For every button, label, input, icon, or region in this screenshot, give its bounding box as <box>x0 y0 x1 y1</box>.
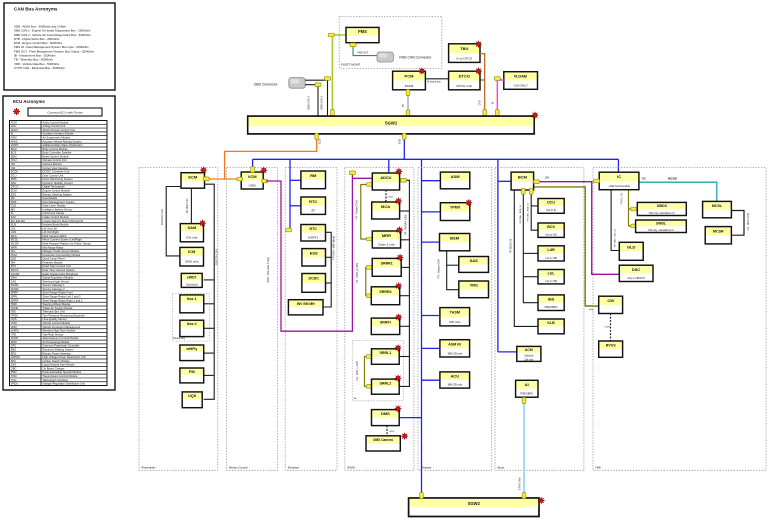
svg-text:18M CB only: 18M CB only <box>447 351 463 355</box>
svg-text:Intake Control Module: Intake Control Module <box>43 215 70 219</box>
svg-text:Body Control Module: Body Control Module <box>43 147 69 151</box>
module FM <box>180 368 204 383</box>
svg-text:Mid Range Radar: Mid Range Radar <box>43 245 64 249</box>
svg-text:ISM: ISM <box>11 359 17 363</box>
module SRRR2 <box>371 287 399 305</box>
svg-text:OBD Connector: OBD Connector <box>254 83 279 87</box>
wire LVDS DMS to DMS Camera <box>386 426 388 436</box>
svg-text:Tachograph Interface: Tachograph Interface <box>43 378 69 382</box>
svg-text:CT/TP CAN - Ethylinide Bus - 5: CT/TP CAN - Ethylinide Bus - 500Kbit/s <box>14 66 65 70</box>
svg-text:RM: RM <box>310 173 317 178</box>
svg-text:FR - Sensor CAN: FR - Sensor CAN <box>438 259 441 279</box>
group box Driveline <box>285 168 337 471</box>
svg-text:FMS: FMS <box>358 29 367 34</box>
svg-text:Airbag Control Unit: Airbag Control Unit <box>43 124 66 128</box>
svg-text:Nox 1: Nox 1 <box>187 297 197 301</box>
svg-text:UQS: UQS <box>11 317 17 321</box>
svg-text:LUL: LUL <box>548 272 556 276</box>
svg-text:AI: AI <box>525 382 529 387</box>
module BSM <box>440 234 470 251</box>
module PCM <box>393 71 426 90</box>
svg-text:Driver Monitoring System: Driver Monitoring System <box>43 177 74 181</box>
module MCSL <box>703 201 732 217</box>
svg-text:SWDL: SWDL <box>656 222 666 226</box>
module YRS <box>459 281 489 298</box>
group box Diesel only <box>172 293 209 341</box>
svg-text:CW: CW <box>607 298 614 303</box>
svg-text:Fuel Module: Fuel Module <box>43 196 58 200</box>
wire FMS OUT (green) from FMS to FMS CAN connector <box>353 43 377 56</box>
svg-text:Ignition Switch Module: Ignition Switch Module <box>43 359 70 363</box>
bus SGW1 <box>248 116 535 134</box>
svg-text:KLB: KLB <box>547 321 555 325</box>
svg-text:ADCU: ADCU <box>11 128 19 132</box>
svg-text:AVAS: AVAS <box>11 139 18 143</box>
svg-text:TPMX: TPMX <box>450 206 461 210</box>
svg-text:Driveline: Driveline <box>288 465 300 469</box>
svg-text:SRRR: SRRR <box>11 298 19 302</box>
module KLB <box>538 319 564 334</box>
svg-text:PSM: PSM <box>11 370 18 374</box>
svg-text:HSRT1: HSRT1 <box>308 236 318 240</box>
svg-text:Acoustic Vehicle Alerting Syst: Acoustic Vehicle Alerting System <box>43 139 83 143</box>
svg-text:18M CB only: 18M CB only <box>447 383 463 387</box>
wire VDB drop to driveline <box>287 159 290 230</box>
svg-text:Secure Gateway 1: Secure Gateway 1 <box>43 283 66 287</box>
wire purple CAN BCM to IC and DSC <box>539 181 592 183</box>
svg-text:SGW2: SGW2 <box>468 501 481 506</box>
svg-text:ACU: ACU <box>11 124 17 128</box>
svg-text:SRRR1: SRRR1 <box>381 261 393 265</box>
svg-text:GMS only: GMS only <box>185 260 199 264</box>
wire FR CAN BCB_V1 BCM to LUR LUL IBS <box>523 192 538 303</box>
module ECM <box>181 173 205 189</box>
module SAS <box>459 257 489 273</box>
svg-text:FR CAN - BCB_C2: FR CAN - BCB_C2 <box>527 202 530 221</box>
svg-text:SAM: SAM <box>11 276 18 280</box>
svg-text:IBS: IBS <box>548 297 555 301</box>
wire FR MCS CAN MCSL to MCSR <box>731 211 744 236</box>
svg-text:VCM: VCM <box>11 321 18 325</box>
wire IB (pink) R.DAB to SGW1 <box>497 80 504 116</box>
svg-text:BCS: BCS <box>547 225 555 229</box>
svg-text:FR ENG CAN: FR ENG CAN <box>160 209 164 225</box>
svg-text:SAS: SAS <box>470 258 479 263</box>
svg-text:ASM Rr: ASM Rr <box>448 343 462 347</box>
svg-text:not on SB: not on SB <box>545 279 557 283</box>
svg-text:Multi Purpose Platform for Pub: Multi Purpose Platform for Public Transp <box>43 242 92 246</box>
svg-text:Steering Angle Sensor: Steering Angle Sensor <box>43 279 70 283</box>
svg-text:Inverter Electric Motor Mild H: Inverter Electric Motor Mild Hybrid <box>43 219 84 223</box>
svg-text:SRRL: SRRL <box>11 295 19 299</box>
svg-text:ACM: ACM <box>525 348 533 352</box>
svg-text:ECU Acronyms: ECU Acronyms <box>13 99 45 104</box>
svg-text:DTB: DTB <box>479 100 482 105</box>
svg-text:9th: 9th <box>354 397 358 400</box>
svg-text:EPS: EPS <box>11 351 17 355</box>
svg-text:Mirror Camera System Left/Righ: Mirror Camera System Left/Right <box>43 238 83 242</box>
svg-text:ICM: ICM <box>11 215 17 219</box>
svg-text:Additional Rain Wiper Distribu: Additional Rain Wiper Distribution <box>43 143 84 147</box>
svg-text:Retarder Module: Retarder Module <box>43 260 64 264</box>
wire FR MGT LIN ECM to SAM <box>190 188 192 223</box>
wire VDB drop to IC <box>617 159 619 172</box>
svg-text:SWD: SWD <box>11 302 17 306</box>
wire FR CAN MM Hybrid driveline chain <box>323 232 331 307</box>
svg-text:FR - RADAR CAN: FR - RADAR CAN <box>405 215 408 235</box>
svg-text:IC: IC <box>617 174 621 179</box>
svg-text:eWDT: eWDT <box>187 275 198 279</box>
svg-text:ADAS: ADAS <box>347 465 355 469</box>
svg-text:ZF: ZF <box>311 209 315 213</box>
module RTC ZF <box>301 197 326 214</box>
svg-text:SGW2: SGW2 <box>11 287 19 291</box>
wire FR ENG CAN ECM to ICM <box>166 187 181 256</box>
svg-text:CW only, standalone IC: CW only, standalone IC <box>649 212 675 215</box>
svg-text:FLEET MGMT: FLEET MGMT <box>341 63 360 67</box>
svg-text:Dynamic Stability Control: Dynamic Stability Control <box>43 181 73 185</box>
svg-text:FM: FM <box>189 369 195 374</box>
module SRRL2 <box>372 379 400 394</box>
svg-text:SRRFr: SRRFr <box>380 321 392 325</box>
svg-text:FR MGT LIN: FR MGT LIN <box>185 199 189 214</box>
svg-text:OBC: OBC <box>11 366 17 370</box>
svg-text:MCSL: MCSL <box>11 238 19 242</box>
wire FR CAN ICB_V1 IC to GLD <box>611 190 619 251</box>
wire ETHY CAN AI to SGW2 <box>523 397 525 498</box>
svg-text:MCA: MCA <box>11 234 17 238</box>
svg-text:Keyless Body Module: Keyless Body Module <box>43 223 69 227</box>
module DCU <box>538 199 564 214</box>
svg-text:DMS: DMS <box>381 411 390 416</box>
svg-text:Body Controller Satellite: Body Controller Satellite <box>43 151 72 155</box>
svg-text:Air Processing Module: Air Processing Module <box>43 340 70 344</box>
svg-text:YRS: YRS <box>470 283 479 288</box>
module DCDC <box>302 274 326 293</box>
svg-text:Multi Camera ADAS: Multi Camera ADAS <box>43 234 67 238</box>
wire FR Fusion CAN ADCU to MRR <box>361 185 373 240</box>
svg-text:LUR: LUR <box>11 230 16 234</box>
module ASM <box>440 172 469 189</box>
svg-text:VDM: VDM <box>11 325 18 329</box>
wire VDB drop body <box>497 159 499 352</box>
module SWDX <box>637 202 686 215</box>
wire FR BGM LIN BCM to KLB <box>514 190 538 326</box>
module DMS <box>372 410 400 426</box>
module CW <box>599 296 623 313</box>
module TASM <box>440 308 470 326</box>
svg-text:FMS: FMS <box>11 200 17 204</box>
svg-text:Road Train Control Unit: Road Train Control Unit <box>43 264 71 268</box>
svg-text:wHiFly: wHiFly <box>185 347 197 351</box>
svg-text:UQS: UQS <box>188 394 196 398</box>
svg-text:INV EM MH: INV EM MH <box>297 302 315 306</box>
wire FR Sensor CAN BSM to SAS YRS <box>447 251 459 290</box>
svg-text:FR CAN - BCB_V1: FR CAN - BCB_V1 <box>519 204 522 223</box>
svg-text:DTCO: DTCO <box>11 185 19 189</box>
module DSC <box>619 265 653 281</box>
svg-text:KLB: KLB <box>11 223 16 227</box>
svg-text:2M: 2M <box>545 176 550 180</box>
svg-text:HVPDU: HVPDU <box>11 355 20 359</box>
svg-text:CAN Bus Acronyms: CAN Bus Acronyms <box>14 7 58 12</box>
svg-text:Lift Unit Right: Lift Unit Right <box>43 230 59 234</box>
svg-text:Quick Lamp Driver: Quick Lamp Driver <box>43 257 65 261</box>
wire OBD CAN 1 to SGW1 <box>305 85 318 116</box>
svg-text:RTC: RTC <box>310 227 318 231</box>
connector FMS CAN Connector <box>377 52 393 62</box>
svg-text:ESS: ESS <box>11 192 17 196</box>
wire VDB drop chassis to SGW2 <box>421 159 423 498</box>
svg-text:R.DAB: R.DAB <box>11 272 19 276</box>
module Nox 2 <box>180 320 204 336</box>
group box Powertrain <box>139 168 218 471</box>
svg-text:DCDC: DCDC <box>11 170 19 174</box>
module SRRL1 <box>372 349 400 365</box>
module SWDL <box>636 220 687 233</box>
svg-text:Electric Power Steering: Electric Power Steering <box>43 351 71 355</box>
group box SRR_L <box>353 341 404 401</box>
svg-text:ASM: ASM <box>11 135 18 139</box>
wire purple CAN VCM to ADCU <box>266 173 352 331</box>
svg-text:LUL: LUL <box>11 226 16 230</box>
svg-text:Optional: Optional <box>186 282 198 286</box>
svg-text:FMS CAN Connector: FMS CAN Connector <box>399 55 432 59</box>
svg-text:RTC: RTC <box>309 199 317 204</box>
module LUL <box>538 270 564 284</box>
wire tractor bus PCM to DTCO <box>425 78 448 80</box>
svg-text:LNG: LNG <box>11 363 17 367</box>
svg-text:CW: CW <box>11 166 16 170</box>
svg-text:BCS: BCS <box>11 151 17 155</box>
group box Motion Control <box>227 168 278 471</box>
group box ADAS <box>345 168 414 471</box>
svg-text:Electronic Braking System: Electronic Braking System <box>43 348 75 352</box>
module MCSR <box>705 227 731 244</box>
module BCS <box>538 223 564 237</box>
svg-text:eWDT: eWDT <box>11 143 19 147</box>
svg-text:CW ONLY: CW ONLY <box>513 84 527 88</box>
svg-text:ADB - CW class 5 only: ADB - CW class 5 only <box>267 257 270 283</box>
svg-text:Steering Wheel Display: Steering Wheel Display <box>43 302 72 306</box>
svg-text:PCM: PCM <box>405 73 415 78</box>
svg-text:BSM: BSM <box>11 154 18 158</box>
wire VDB drop to VCM top <box>252 159 254 171</box>
svg-text:VCM: VCM <box>248 174 258 179</box>
svg-text:(Up to 4): (Up to 4) <box>546 208 556 212</box>
svg-text:ECB: ECB <box>318 139 321 144</box>
legend box CAN Bus Acronyms <box>4 3 115 90</box>
svg-text:VRDU: VRDU <box>11 382 19 386</box>
svg-text:TASM: TASM <box>450 311 460 315</box>
svg-text:CPC: CPC <box>11 344 17 348</box>
svg-text:INV EM MH: INV EM MH <box>11 219 25 223</box>
wire body stub to ACM <box>498 351 517 353</box>
svg-text:If no DTCO: If no DTCO <box>456 56 472 60</box>
module SRRFr <box>371 318 399 334</box>
svg-text:VDM: VDM <box>249 183 256 187</box>
svg-text:Climate Control Unit: Climate Control Unit <box>43 158 67 162</box>
svg-text:DSC: DSC <box>11 181 17 185</box>
svg-text:Common Powertrain Controller: Common Powertrain Controller <box>43 344 80 348</box>
module R.DAB <box>504 72 538 90</box>
module GLD <box>619 242 643 260</box>
svg-text:Instrument Cluster: Instrument Cluster <box>43 211 65 215</box>
module RVCS <box>599 341 623 357</box>
module MCA <box>372 202 400 219</box>
module MRR <box>372 231 400 248</box>
svg-text:ECM: ECM <box>11 189 18 193</box>
svg-text:Powertrain Connectivity Module: Powertrain Connectivity Module <box>43 253 81 257</box>
group box FLEET MGMT <box>339 17 442 69</box>
svg-text:SRRR2: SRRR2 <box>379 290 391 294</box>
module INV EM MH <box>288 300 323 315</box>
svg-text:ACU: ACU <box>450 373 459 378</box>
svg-text:SAS: SAS <box>11 279 17 283</box>
wire LVDS ADCU to MCA <box>385 190 387 202</box>
group box Body <box>495 168 584 471</box>
svg-text:M tractor bus: M tractor bus <box>427 81 441 84</box>
svg-text:DMS Camera: DMS Camera <box>373 438 393 442</box>
wire ECB (orange) SGW1 to ECM and VCM <box>209 134 317 179</box>
svg-text:TPMX: TPMX <box>11 313 19 317</box>
svg-text:Chassis: Chassis <box>421 465 432 469</box>
svg-text:FR IC LIN: FR IC LIN <box>620 193 623 204</box>
module DMS Camera <box>366 436 400 451</box>
svg-text:GLD: GLD <box>627 244 636 249</box>
svg-text:Urea Quality Sensor: Urea Quality Sensor <box>43 317 67 321</box>
module ACM <box>517 346 541 361</box>
svg-text:BCM: BCM <box>11 147 18 151</box>
svg-text:Signal Acquisition Module: Signal Acquisition Module <box>43 276 74 280</box>
svg-text:MRR: MRR <box>382 233 391 238</box>
svg-text:Trailer Air Supply Module: Trailer Air Supply Module <box>43 306 73 310</box>
svg-text:Secure Gateway 2: Secure Gateway 2 <box>43 287 66 291</box>
group box Chassis <box>418 168 492 471</box>
svg-text:DTCO: DTCO <box>459 73 470 78</box>
svg-text:Intelligent Battery Sensor: Intelligent Battery Sensor <box>43 207 73 211</box>
svg-text:Auxiliary Interface Module: Auxiliary Interface Module <box>43 132 74 136</box>
wire MCSB teal IC to MCSL <box>639 182 717 201</box>
legend label Common ECU with Trucks <box>28 108 102 116</box>
wire FR RADAR CAN ADCU chain <box>399 180 409 386</box>
svg-text:Parameterisable Special Module: Parameterisable Special Module <box>43 370 82 374</box>
svg-text:APM: APM <box>11 340 18 344</box>
wire FMS IN (yellow-green) from FMS to SGW1 <box>332 35 346 116</box>
svg-text:Class 3 only: Class 3 only <box>378 242 395 246</box>
wire DTB (dark orange) TBU/DTCO to SGW1 <box>480 54 485 116</box>
svg-text:SRRL2: SRRL2 <box>380 381 392 385</box>
svg-text:DCU: DCU <box>547 201 555 205</box>
svg-text:DC/DC Converter Unit: DC/DC Converter Unit <box>43 170 70 174</box>
svg-text:SGW1: SGW1 <box>11 283 19 287</box>
svg-text:Camera Monitor: Camera Monitor <box>43 162 62 166</box>
svg-text:FR CAN - MM Hybrid: FR CAN - MM Hybrid <box>333 236 336 260</box>
module ADCU <box>372 173 399 190</box>
svg-text:ASM: ASM <box>451 174 461 179</box>
svg-text:ADAS Domain Control Unit: ADAS Domain Control Unit <box>43 128 76 132</box>
svg-text:MCSL: MCSL <box>712 204 723 208</box>
svg-text:SWDX: SWDX <box>657 204 668 208</box>
svg-text:FR - MCS CAN: FR - MCS CAN <box>747 213 750 230</box>
svg-text:Short Range Radar Left 1 and 2: Short Range Radar Left 1 and 2 <box>43 295 82 299</box>
svg-text:FR CAN - ICB_V1: FR CAN - ICB_V1 <box>613 228 616 246</box>
svg-text:VDB: VDB <box>399 139 402 144</box>
svg-text:CW only: CW only <box>186 236 198 240</box>
svg-text:AI: AI <box>11 132 14 136</box>
svg-text:Common ECU with Trucks: Common ECU with Trucks <box>47 110 83 114</box>
svg-text:Lift Unit Left: Lift Unit Left <box>43 226 58 230</box>
svg-text:Nox: Nox <box>11 249 16 253</box>
svg-text:Rear View Camera System: Rear View Camera System <box>43 268 76 272</box>
svg-text:Air Suspension Module: Air Suspension Module <box>43 135 71 139</box>
wire VDB (blue) SGW1 backbone <box>403 134 405 159</box>
svg-text:FMS OUT: FMS OUT <box>358 52 369 55</box>
module IBS <box>538 295 564 311</box>
svg-text:Diesel only: Diesel only <box>173 337 185 340</box>
svg-text:TCM: TCM <box>11 374 18 378</box>
wire LVDS CW to RVCS <box>610 314 612 342</box>
svg-text:MCSR: MCSR <box>11 242 19 246</box>
module eWDT <box>181 273 202 287</box>
module UQS <box>182 392 202 408</box>
svg-text:BSM: BSM <box>450 235 460 240</box>
wire DMS to chassis backbone <box>399 417 421 419</box>
wire FR SRR_L CAN <box>365 357 372 387</box>
wire body stub to BCM <box>498 180 511 182</box>
svg-text:ETHY CAN: ETHY CAN <box>518 478 521 491</box>
svg-text:DTCO 4.1b: DTCO 4.1b <box>456 84 472 88</box>
svg-text:ICM: ICM <box>188 249 196 254</box>
svg-text:CW only, standalone IC: CW only, standalone IC <box>648 229 674 232</box>
module SRRR1 <box>372 258 401 276</box>
svg-text:FR BGM LIN: FR BGM LIN <box>509 239 512 254</box>
svg-text:DMS: DMS <box>11 177 17 181</box>
svg-text:LVDS: LVDS <box>389 431 395 433</box>
wire FR CAN BCB_C2 BCM to DCU BCS <box>531 192 538 230</box>
svg-text:Tyre Pressure Monitoring Expan: Tyre Pressure Monitoring Expander <box>43 313 85 317</box>
svg-text:RTC: RTC <box>11 264 17 268</box>
svg-text:BCM: BCM <box>518 175 528 180</box>
svg-text:FR - SRR_R CAN: FR - SRR_R CAN <box>356 263 359 283</box>
svg-text:Telematic Box Unit: Telematic Box Unit <box>43 310 66 314</box>
wire FR IC LIN IC to SWDX SWDL <box>629 190 636 226</box>
svg-text:RVCS: RVCS <box>606 344 617 348</box>
svg-text:CW only: CW only <box>524 358 534 361</box>
svg-text:Digital Tachograph: Digital Tachograph <box>43 185 66 189</box>
svg-text:Door Control Unit: Door Control Unit <box>43 173 64 177</box>
svg-text:+SW functionality: +SW functionality <box>608 184 630 188</box>
svg-text:HMI: HMI <box>596 465 601 469</box>
legend ECU acronym table <box>10 120 108 385</box>
svg-text:DCDC: DCDC <box>309 277 320 281</box>
svg-text:Short Range Radar Right 1 and: Short Range Radar Right 1 and 2 <box>43 298 83 302</box>
svg-text:SRRF: SRRF <box>11 291 19 295</box>
svg-text:SAM: SAM <box>187 225 197 230</box>
svg-text:FR - Fusion CAN: FR - Fusion CAN <box>355 200 358 219</box>
svg-text:Vehicle Control Module: Vehicle Control Module <box>43 321 71 325</box>
svg-text:IBS: IBS <box>11 207 16 211</box>
svg-text:ENG FR CAN: ENG FR CAN <box>215 249 219 265</box>
svg-text:MCSB: MCSB <box>668 177 678 181</box>
svg-text:Electric Steering System: Electric Steering System <box>43 192 73 196</box>
module ESS <box>302 249 326 266</box>
svg-text:ECM: ECM <box>188 175 198 180</box>
svg-text:Powertrain: Powertrain <box>142 465 156 469</box>
module DTCO <box>449 71 480 90</box>
svg-text:Audio Control Module: Audio Control Module <box>43 120 69 124</box>
svg-text:LVDS: LVDS <box>605 327 611 329</box>
